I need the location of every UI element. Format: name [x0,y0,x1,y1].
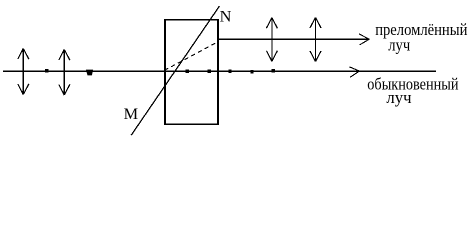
crystal rectangle [165,20,218,124]
polarization dot D5 [228,70,231,73]
svg-text:луч: луч [388,36,410,55]
svg-text:луч: луч [386,88,412,107]
svg-text:M: M [124,104,138,123]
ordinary ray arrowhead [349,67,359,78]
svg-text:N: N [220,7,232,26]
polarization arrow A1 (double-headed vertical) [18,49,29,95]
wire: ordinary ray (main horizontal ray) [3,70,436,72]
polarization arrow A3 (double-headed vertical) [266,18,277,62]
optic axis line MN [131,6,219,135]
polarization dot D7 [272,69,275,72]
svg-text:обыкновенный: обыкновенный [367,74,458,93]
extraordinary ray inside crystal (dashed) [165,42,218,70]
polarization arrow A2 (double-headed vertical) [59,50,70,96]
wire: refracted (extraordinary) ray [218,38,368,40]
polarization dot D2 (large) [86,70,93,76]
polarization dot D3 [186,69,189,72]
polarization dot D4 [208,69,211,72]
polarization arrow A4 (double-headed vertical) [310,17,321,61]
refracted ray arrowhead [359,34,369,45]
polarization dot D1 [45,69,48,72]
polarization dot D6 [250,70,253,73]
